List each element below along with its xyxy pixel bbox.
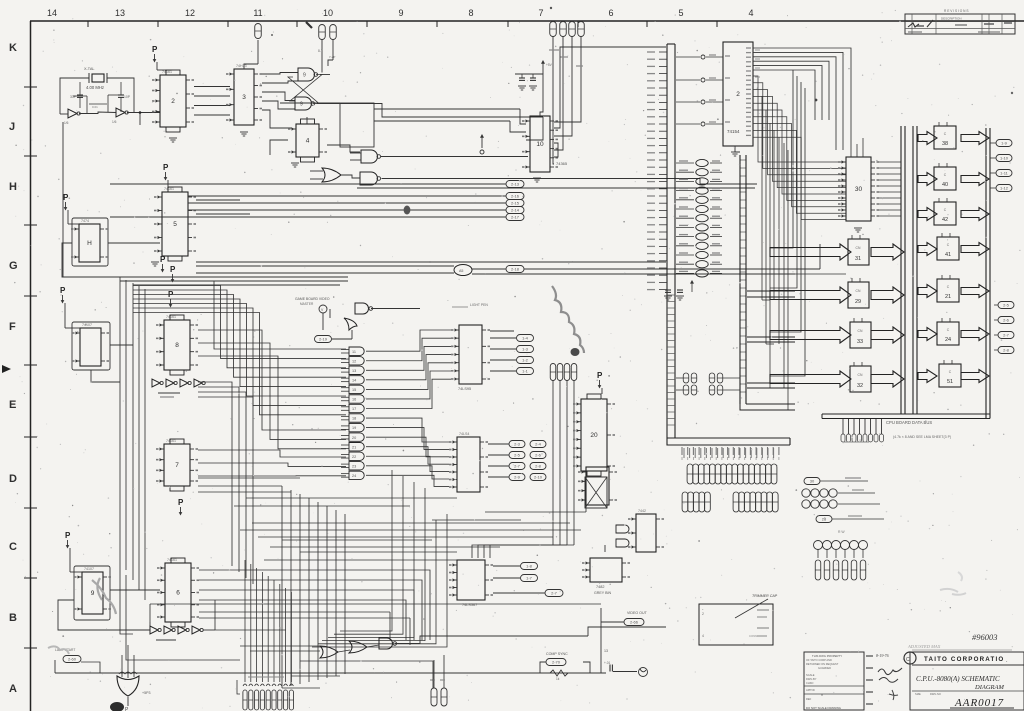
- address buffer A10: [696, 205, 708, 212]
- connector field pill low-b 7: [772, 492, 778, 512]
- wire decoder output down 7: [753, 124, 846, 207]
- connector pill under circle 2: [833, 560, 839, 580]
- svg-text:CN: CN: [856, 289, 861, 293]
- wire left vertical 3: [138, 286, 140, 590]
- svg-text:7482: 7482: [596, 585, 604, 589]
- svg-text:AAR0017: AAR0017: [954, 697, 1004, 709]
- connector pill 2-18: [506, 266, 524, 273]
- svg-text:4: 4: [748, 8, 753, 18]
- connector pill J-b: [330, 25, 337, 40]
- svg-text:ADJUSTED MAX: ADJUSTED MAX: [907, 644, 941, 649]
- connector field pill low-a 2: [693, 492, 699, 512]
- paper speckle noise: [654, 20, 657, 23]
- wire drop tie c: [246, 497, 457, 499]
- conn field label 16: [773, 448, 775, 458]
- AND gate column g6: [349, 404, 364, 412]
- address buffer A3: [696, 270, 708, 277]
- bus bottom pin label 3: [698, 447, 700, 455]
- svg-text:2-7: 2-7: [551, 591, 558, 596]
- svg-text:38: 38: [942, 141, 948, 147]
- title mid signature: [878, 668, 902, 675]
- connector pill L2: [509, 452, 525, 459]
- wire center bundle bottom tie: [282, 687, 320, 689]
- IC 74154 decoder: [723, 42, 753, 146]
- wire decoder input 1: [676, 79, 700, 81]
- wire drop bundle 5: [312, 514, 447, 647]
- wire bottom gates in: [240, 645, 320, 647]
- connector pill bottom-left 5: [272, 690, 276, 710]
- wire bottom-left pill 6 up: [279, 584, 281, 682]
- title mid col divider: [863, 652, 865, 710]
- CPU bus pin tick 33: [659, 289, 667, 291]
- wire gate cluster aux long: [357, 187, 755, 189]
- wire IC30 right to busA 0: [879, 161, 901, 163]
- svg-text:2-9: 2-9: [514, 475, 521, 480]
- wire bottom y661 run: [300, 661, 433, 688]
- connector circle row1 1: [811, 489, 819, 497]
- AAR underline: [950, 707, 1014, 709]
- IC 20 lower companion: [586, 467, 609, 505]
- wire NAND G3 output long: [382, 178, 701, 180]
- svg-text:2-16: 2-16: [511, 194, 520, 199]
- wire buffer A10 out: [710, 208, 722, 210]
- title mid scribble: [889, 690, 898, 700]
- decoder internal left marks: [725, 55, 730, 57]
- wire top pill 1-17 down: [554, 37, 563, 151]
- title left divider 2: [804, 693, 864, 695]
- connector pill COMP SYNC: [546, 659, 566, 666]
- border frame left line: [30, 21, 32, 711]
- faint line above title: [912, 649, 1012, 651]
- wire center vertical 4: [317, 502, 319, 680]
- wire gate g2 inputs: [341, 368, 349, 370]
- wire buffer A3 in: [676, 272, 694, 274]
- connector pill top 1-17: [560, 22, 567, 37]
- svg-text:RETURNED ON REQUEST: RETURNED ON REQUEST: [806, 662, 839, 666]
- connector field pill low-b 1: [739, 492, 745, 512]
- bus arrow into RAM 21: [918, 285, 937, 298]
- AND gate column g3: [349, 376, 364, 384]
- revision table column line: [935, 14, 937, 34]
- connector pill L0: [509, 441, 525, 448]
- wire staircase 5: [133, 304, 346, 397]
- svg-text:2-5: 2-5: [1003, 303, 1010, 308]
- wire decoder bottom to inner bus: [735, 146, 740, 152]
- svg-text:19: 19: [352, 426, 356, 430]
- svg-text:4.00 MHz: 4.00 MHz: [86, 85, 104, 90]
- wire drop bundle 4: [318, 520, 436, 644]
- wire drop tie i: [270, 546, 500, 548]
- inverter row below IC6 d: [192, 626, 200, 634]
- connector pill right-mid 1: [998, 317, 1014, 324]
- svg-text:8: 8: [175, 342, 179, 349]
- wire bundle tie h3: [770, 387, 784, 389]
- wire gate g6 inputs: [341, 406, 349, 408]
- svg-text:P: P: [152, 45, 158, 54]
- crystal X1 side plates: [88, 73, 90, 83]
- connector pill 1-4: [517, 335, 534, 342]
- wire pill 2-19: [332, 338, 352, 340]
- wire buffer A4 in: [676, 263, 694, 265]
- svg-text:R E V I S I O N S: R E V I S I O N S: [944, 9, 968, 13]
- decoder output stub label 0: [755, 49, 760, 51]
- svg-text:24: 24: [352, 474, 356, 478]
- wire center vertical 7: [344, 514, 346, 674]
- wire bottom-left pill 0 up: [244, 560, 246, 682]
- wire buffer A6 in: [676, 245, 694, 247]
- wire top pill 1-18 down: [553, 37, 554, 165]
- revision table column line: [981, 14, 983, 34]
- connector pill 2-13: [506, 181, 524, 188]
- connector pill P1 bottom: [431, 688, 437, 706]
- IC H flip-flop: [79, 224, 100, 262]
- svg-text:16: 16: [352, 398, 356, 402]
- IC 8 counter: [164, 320, 190, 370]
- address buffer A7: [696, 233, 708, 240]
- junction oscillator output: [139, 111, 142, 114]
- wire buffer A5 out: [710, 254, 722, 256]
- connector pill right-top 2: [996, 170, 1012, 177]
- top border tick: [227, 21, 229, 27]
- svg-text:P: P: [170, 265, 176, 274]
- CPU bus pin tick 5: [659, 87, 667, 89]
- svg-text:1/6: 1/6: [64, 121, 69, 125]
- scribble smudge center: [552, 286, 584, 353]
- IC 74LS95 upper: [459, 325, 482, 384]
- wire loop rectangle: [340, 103, 374, 147]
- smudge small mid: [404, 206, 411, 215]
- svg-text:X-TAL: X-TAL: [84, 67, 94, 71]
- revision table entry marks: [916, 25, 924, 27]
- wire circle row1: [838, 492, 875, 494]
- oscillator inner partition a: [86, 96, 88, 114]
- wire OR inputs: [310, 170, 323, 172]
- black blob bottom edge: [110, 702, 124, 711]
- wire IC7 to gates 0: [198, 450, 346, 457]
- wire decoder output corner 2: [753, 57, 836, 150]
- svg-text:74LS95: 74LS95: [458, 387, 471, 391]
- bottom-left block bracket: [237, 680, 240, 694]
- wire center vertical 0: [281, 486, 283, 688]
- title block left box: [804, 652, 864, 710]
- svg-text:18: 18: [352, 417, 356, 421]
- wire after cap: [613, 671, 637, 673]
- unused gate box with X: [585, 477, 607, 508]
- wire staircase 7: [133, 313, 346, 415]
- svg-text:17: 17: [352, 407, 356, 411]
- connector pill top 1-16: [569, 22, 576, 37]
- connector circle row1 3: [829, 489, 837, 497]
- latch cross wire 1: [290, 75, 322, 102]
- NAND gate g6 bottom: [379, 638, 393, 649]
- IC F outer box: [72, 322, 110, 370]
- bus arrow RAM 38 to busB: [961, 132, 989, 145]
- svg-text:9: 9: [398, 8, 403, 18]
- connector field pill top 7: [726, 464, 732, 484]
- wire P IC20: [601, 388, 603, 394]
- wire staircase 0: [133, 281, 346, 349]
- wire right-mid pill 2: [994, 334, 998, 336]
- wire P1 up: [433, 660, 435, 688]
- oscillator cap C1 wire: [79, 82, 81, 95]
- svg-text:LIGHT PEN: LIGHT PEN: [470, 303, 488, 307]
- +5V stub arrow: [542, 62, 544, 74]
- smudge bottom-left squiggle: [92, 578, 116, 614]
- gate near IC21 a: [616, 525, 629, 533]
- wire feeder col1 1: [770, 76, 797, 288]
- wire OR output to NAND G3: [341, 175, 360, 178]
- connector circle mid 0: [814, 541, 823, 550]
- svg-text:74107: 74107: [82, 323, 92, 327]
- wire drop tie b: [240, 529, 581, 531]
- IC 2 counter: [160, 75, 186, 127]
- address buffer A15: [696, 159, 708, 166]
- IC RAM 38: [934, 126, 956, 149]
- bus bottom pin label 13: [755, 447, 757, 455]
- wire gate g7 output: [366, 418, 449, 442]
- bus bottom pin label 5: [710, 447, 712, 455]
- svg-text:2-10: 2-10: [534, 475, 543, 480]
- wire IC2 Q2 to IC3: [194, 105, 230, 107]
- IC 20: [581, 399, 607, 471]
- wire gate g3 output: [366, 355, 451, 380]
- wire staircase 3: [133, 295, 346, 378]
- wire drop tie f: [264, 559, 457, 561]
- AND gate column g7: [349, 414, 364, 422]
- bus arrow into RAM 41: [918, 243, 937, 256]
- connector pill under circle 1: [824, 560, 830, 580]
- wire decoder input 2: [676, 101, 700, 103]
- wire decoder bundle vertical 2: [769, 123, 771, 388]
- connector pill top 1-18: [550, 22, 557, 37]
- connector pill VIDEO OUT: [624, 619, 644, 626]
- wire signal bundle s4: [110, 216, 506, 218]
- revision table entry marks 2: [955, 24, 967, 26]
- wire video out: [601, 621, 624, 623]
- wire IC4 left in: [270, 140, 288, 155]
- connector circle row2 3: [829, 500, 837, 508]
- wire long run y262: [196, 261, 666, 263]
- IC ROM 32: [850, 366, 871, 392]
- title block right box: [910, 652, 1024, 710]
- svg-text:30: 30: [855, 186, 863, 193]
- CPU bus pin tick 31: [659, 274, 667, 276]
- svg-text:C: C: [9, 541, 17, 553]
- wire decoder output corner 1: [753, 52, 843, 150]
- svg-text:10: 10: [323, 8, 333, 18]
- wire buffer A9 out: [710, 217, 722, 219]
- address buffer A6: [696, 242, 708, 249]
- bus arrow into RAM 42: [918, 208, 937, 221]
- svg-text:8: 8: [468, 8, 473, 18]
- svg-text:C.P.U.-8080(A) SCHEMATIC: C.P.U.-8080(A) SCHEMATIC: [916, 675, 1000, 683]
- svg-text:DESCRIPTION: DESCRIPTION: [941, 17, 962, 21]
- wire signal bundle s2: [188, 202, 506, 204]
- left border tick: [24, 647, 37, 649]
- svg-text:CHKD: CHKD: [806, 681, 813, 685]
- address buffer A13: [696, 178, 708, 185]
- wire drop tie g: [485, 511, 586, 513]
- CPU bus pin tick 16: [659, 166, 667, 168]
- capacitor C5: [519, 77, 525, 79]
- ground IC30: [854, 227, 862, 229]
- connector pill bottom-left hook 4: [266, 684, 270, 686]
- NAND gate G3: [360, 172, 378, 185]
- revision table column line: [1001, 14, 1003, 34]
- ground IC5: [151, 261, 159, 263]
- wire decoder output corner 4: [753, 66, 822, 120]
- left border tick: [24, 155, 37, 157]
- wire bottom gates chain: [338, 650, 350, 652]
- CPU bus pin tick 15: [659, 159, 667, 161]
- inverter row below IC6 c: [178, 626, 186, 634]
- bus bottom pin label 1: [687, 447, 689, 455]
- inverter row below IC6 b: [164, 626, 172, 634]
- svg-text:6: 6: [176, 590, 180, 597]
- conn field label 9: [733, 448, 735, 458]
- connector pill 1-1: [517, 368, 534, 375]
- wire lamp: [81, 662, 100, 673]
- revision table column line: [988, 14, 990, 34]
- connector pill mid-right 7: [717, 385, 723, 395]
- svg-text:9: 9: [91, 590, 95, 597]
- top border tick: [577, 21, 579, 27]
- wire decoder output corner 3: [753, 61, 829, 120]
- wire NAND G2 output long: [381, 156, 529, 158]
- wire center bundle tie mid: [282, 539, 432, 541]
- inverter row below IC8 d: [194, 379, 202, 387]
- wire buffer A12 out: [710, 190, 722, 192]
- connector pill bottom-left hook 3: [260, 684, 264, 686]
- IC 4 flip-flop: [296, 124, 319, 157]
- conn field label 14: [761, 448, 763, 458]
- connector pill 8-7 top: [255, 24, 262, 39]
- bus arrow RAM 21 to busB: [961, 285, 989, 298]
- svg-text:1-4: 1-4: [522, 336, 529, 341]
- wire gate g2 output: [366, 346, 451, 370]
- connector pill mid-right 4: [709, 373, 715, 383]
- connector pill mid V4: [571, 364, 577, 381]
- svg-text:GREY BIN: GREY BIN: [594, 591, 612, 595]
- wire buffer A14 out: [710, 171, 722, 173]
- buffer gate A5: [454, 265, 472, 276]
- wire decoder output down 5: [753, 110, 846, 194]
- conn field label 10: [739, 448, 741, 458]
- wire feeder col1 2: [770, 82, 801, 332]
- connector field pill top 11: [749, 464, 755, 484]
- wire gate g9 inputs: [341, 434, 349, 436]
- revision table outer box: [905, 14, 1015, 34]
- svg-text:4: 4: [702, 634, 704, 638]
- connector field pill top 14: [766, 464, 772, 484]
- bus bottom pin label 17: [778, 447, 780, 455]
- connector pill top 1-15: [578, 22, 585, 37]
- wire loop to IC10 a: [374, 108, 520, 110]
- connector pill right-top 0: [996, 140, 1012, 147]
- connector circle mid 4: [850, 541, 859, 550]
- svg-text:42: 42: [942, 217, 948, 223]
- conn field label 12: [750, 448, 752, 458]
- bottom-left labels smear: [248, 676, 284, 678]
- svg-text:DIAGRAM: DIAGRAM: [974, 684, 1004, 691]
- connector pill L1: [530, 441, 546, 448]
- svg-text:#96003: #96003: [972, 632, 998, 642]
- top border tick: [87, 21, 89, 27]
- left border tick: [24, 577, 37, 579]
- conn field label 11: [745, 448, 747, 458]
- top border tick: [436, 21, 438, 27]
- smudge faint top-right: [940, 589, 966, 595]
- wire IC F out right: [110, 344, 133, 346]
- wire left vertical bottom bend b: [126, 575, 240, 660]
- bus arrow ROM 32 to busA: [871, 371, 904, 387]
- bus bottom pin label 12: [749, 447, 751, 455]
- connector pill under circle 0: [815, 560, 821, 580]
- svg-text:29: 29: [855, 299, 861, 305]
- svg-text:P: P: [163, 163, 169, 172]
- svg-text:2-14: 2-14: [511, 208, 520, 213]
- wire video gate out: [371, 308, 420, 310]
- wire loop left in: [280, 102, 340, 104]
- svg-text:1-11: 1-11: [1000, 171, 1008, 176]
- CPU bus pin tick 1: [659, 58, 667, 60]
- wire gate g6 output: [366, 379, 451, 408]
- wire IC H feedback: [62, 243, 120, 277]
- wire bottom-left pill 4 up: [267, 576, 269, 682]
- OR gate g5 bottom: [349, 641, 367, 653]
- wire decoder bundle vertical 0: [761, 96, 763, 300]
- svg-text:74161: 74161: [166, 439, 176, 443]
- connector field pill low-a 3: [699, 492, 705, 512]
- wire pill V3 down: [566, 381, 568, 546]
- wire right-mid pill 0: [994, 304, 998, 306]
- wire buffer A15 in: [676, 162, 694, 164]
- wire center vertical 6: [335, 510, 337, 676]
- wire buffer A14 in: [676, 171, 694, 173]
- wire pill B1: [493, 565, 520, 567]
- wire gate g1 inputs: [341, 358, 349, 360]
- CPU bus pin tick 20: [659, 195, 667, 197]
- CPU bus pin tick 21: [659, 202, 667, 204]
- IC 74LS95 lower: [457, 437, 480, 492]
- svg-text:8-19-76: 8-19-76: [876, 653, 889, 658]
- svg-text:2-70: 2-70: [552, 660, 561, 665]
- wire IC3 out B: [262, 81, 298, 83]
- wire buffer A12 in: [676, 190, 694, 192]
- bus bottom pin label 4: [704, 447, 706, 455]
- connector circle row2 2: [820, 500, 828, 508]
- connector field pill low-a 4: [705, 492, 711, 512]
- connector field pill top 15: [771, 464, 777, 484]
- connector pill right-top 1: [996, 155, 1012, 162]
- conn field label 5: [711, 448, 713, 458]
- wire pill pair: [832, 518, 884, 520]
- wire NAND9b output long: [317, 104, 543, 118]
- crystal X1 body: [92, 74, 104, 82]
- wire pill 1-1: [490, 370, 516, 372]
- wire decoder input 3: [676, 123, 700, 125]
- IC 74LS367 bottom: [457, 560, 485, 600]
- wire bottom-left pill 3 up: [261, 572, 263, 682]
- wire staircase 4: [133, 299, 346, 387]
- svg-text:1-8: 1-8: [526, 564, 533, 569]
- wire drop tie e: [258, 536, 553, 538]
- bus arrow into RAM 40: [918, 173, 937, 186]
- wire bottom-left pill 7 up: [285, 588, 287, 682]
- buffer +5V arrow: [691, 282, 693, 292]
- CPU bus pin tick 12: [659, 137, 667, 139]
- left border tick: [24, 295, 37, 297]
